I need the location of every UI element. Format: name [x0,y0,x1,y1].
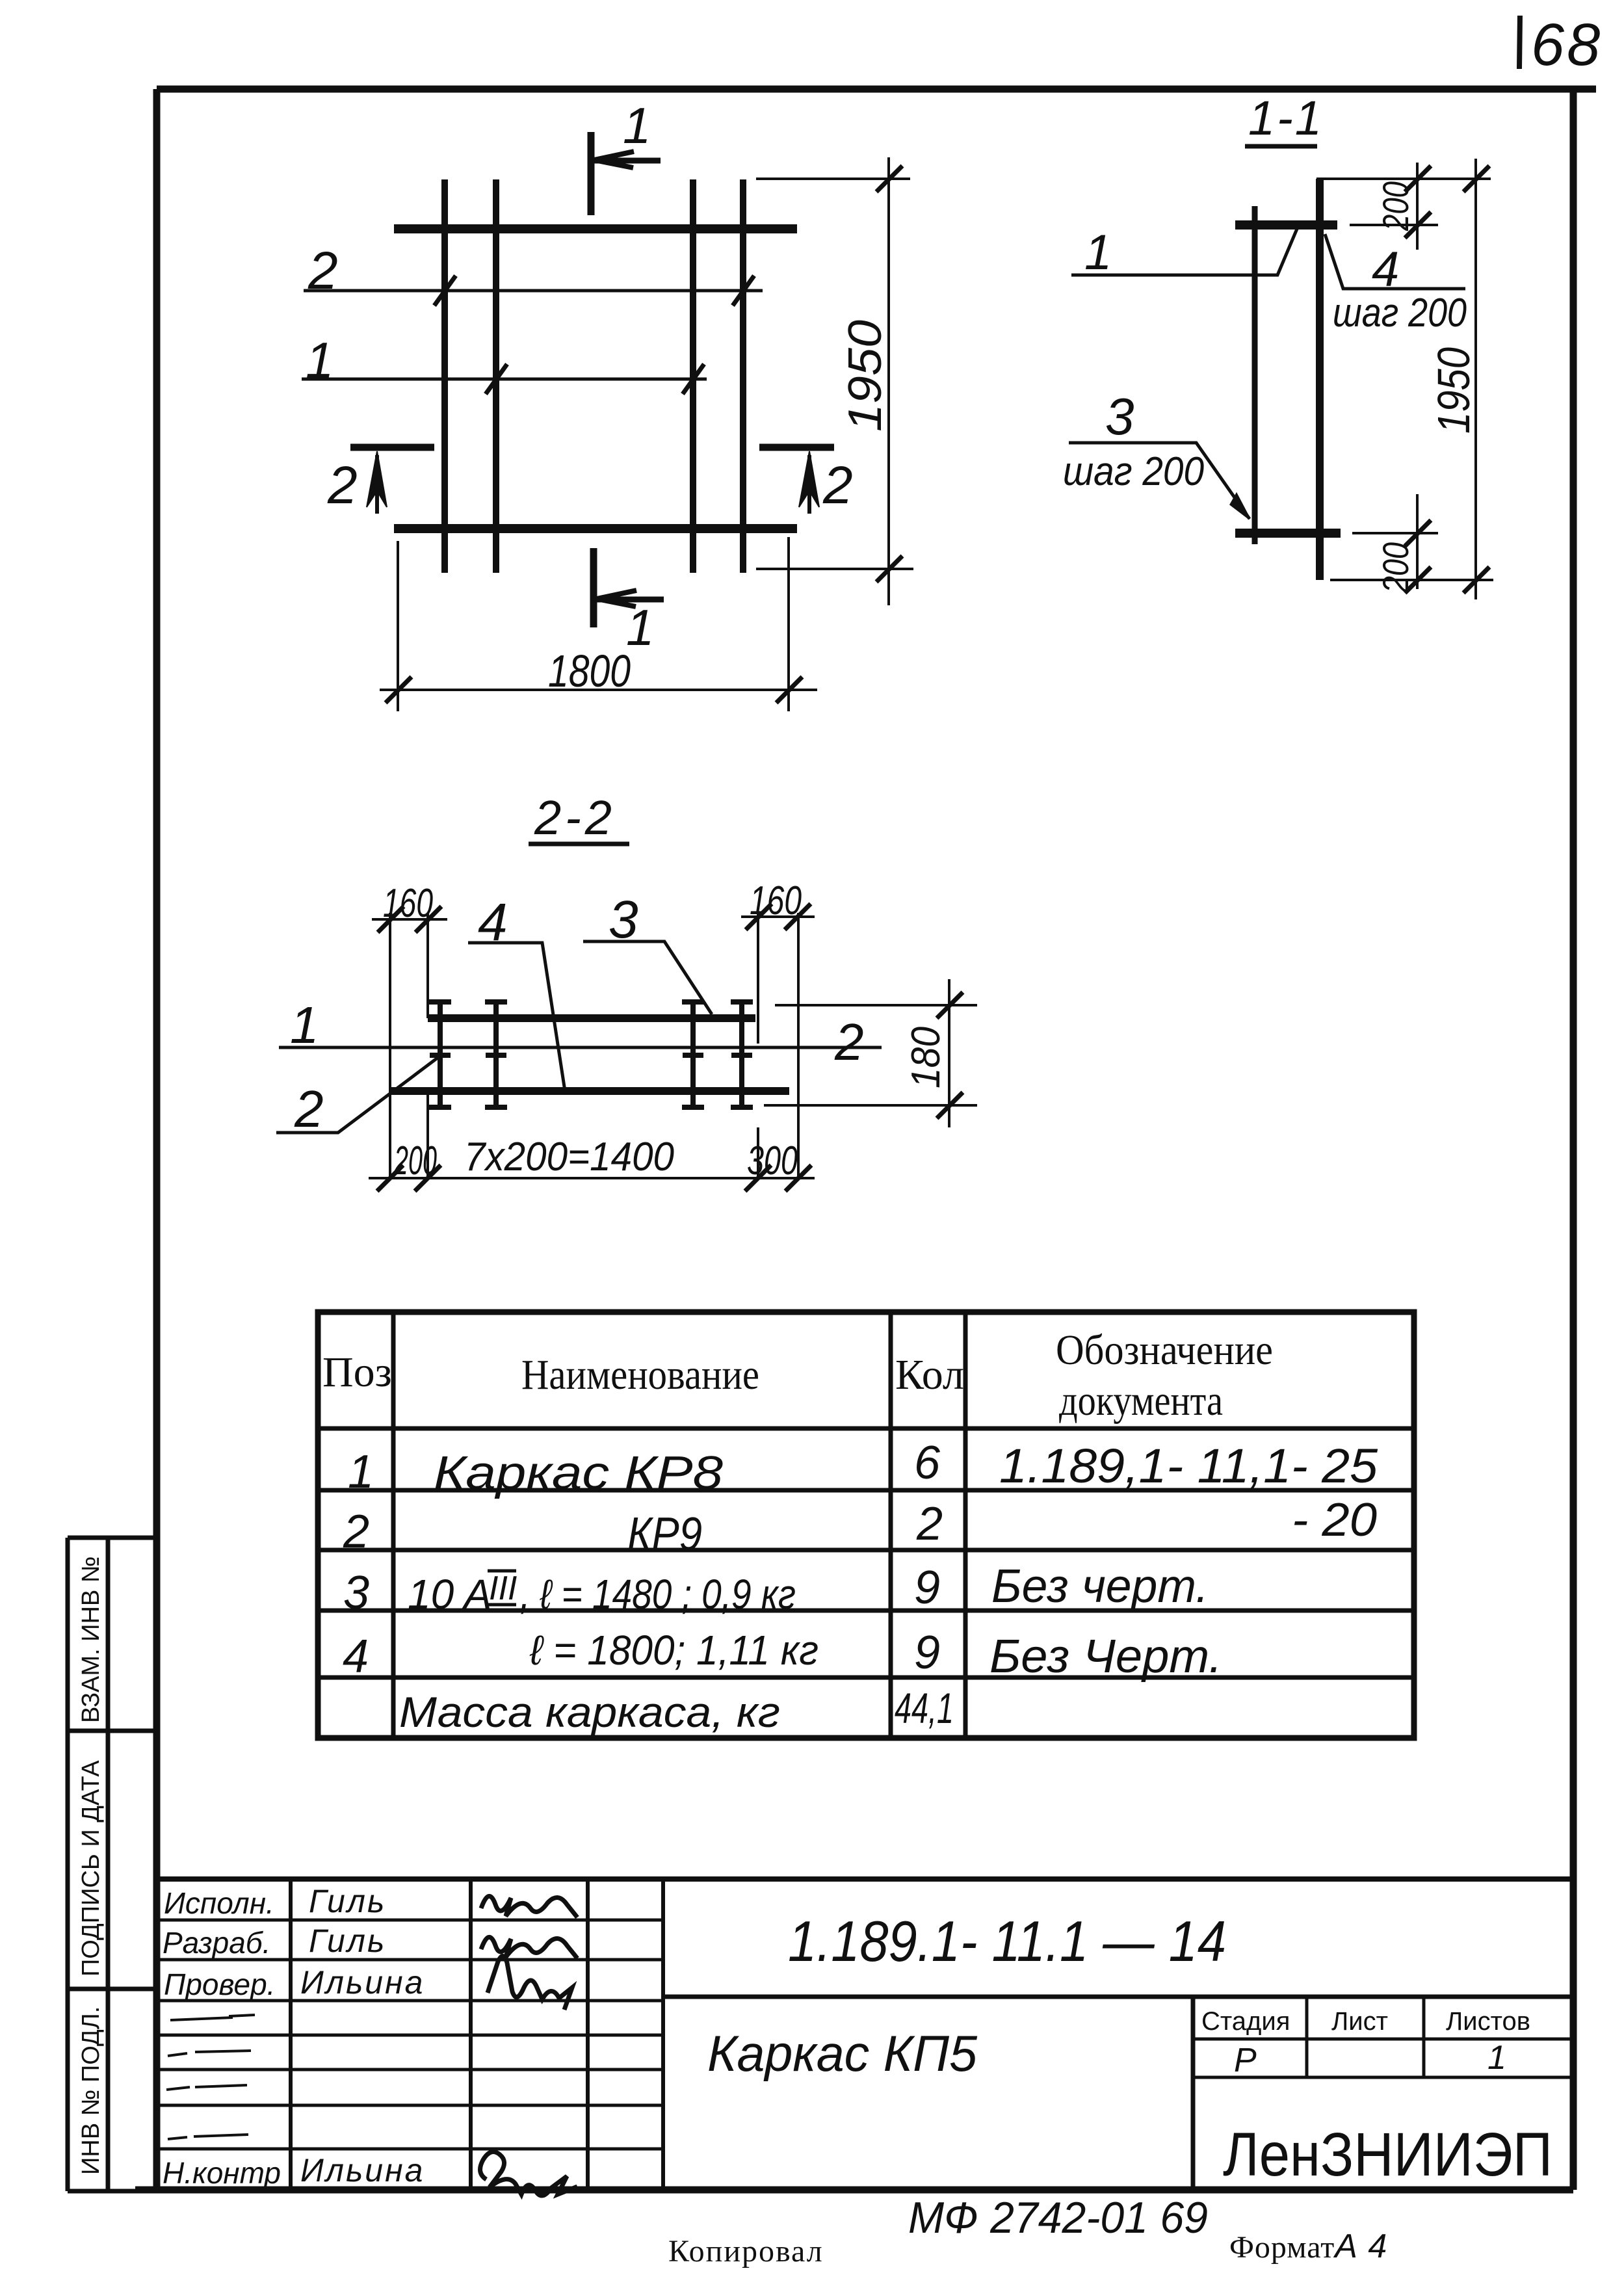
svg-text:Лист: Лист [1331,2007,1388,2036]
svg-text:ФорматА 4: ФорматА 4 [1229,2228,1387,2265]
svg-text:7x200=1400: 7x200=1400 [464,1135,674,1179]
svg-text:Поз: Поз [322,1348,392,1396]
svg-text:1: 1 [306,332,334,389]
svg-text:, ℓ = 1480 ; 0,9 кг: , ℓ = 1480 ; 0,9 кг [520,1571,796,1618]
svg-text:9: 9 [914,1562,940,1614]
dim line 200 top [1416,163,1419,250]
dashes in empty rows [166,2015,255,2139]
vertical rebar V3 [690,179,696,573]
svg-text:1: 1 [290,996,319,1054]
vertical rebar V2 [493,179,499,573]
svg-text:Без Черт.: Без Черт. [989,1631,1222,1683]
signatures [480,1896,577,2196]
svg-text:Стадия: Стадия [1201,2007,1290,2036]
transverse bar T1 [429,1000,451,1109]
section mark 1 top [591,132,661,215]
svg-text:10 A: 10 A [408,1571,491,1618]
svg-text:200: 200 [393,1138,437,1183]
section mark 2 right [759,447,834,514]
section mark 2 left [350,447,434,514]
bottom dimension chain [369,1165,815,1191]
svg-text:1: 1 [623,97,651,154]
svg-text:ИНВ № ПОДЛ.: ИНВ № ПОДЛ. [77,2006,105,2175]
dim 160 right [741,904,815,1178]
svg-text:Наименование: Наименование [521,1351,759,1399]
svg-text:Ильина: Ильина [300,1964,425,2001]
svg-text:2: 2 [294,1080,324,1138]
vertical rebar V1 [441,179,448,573]
svg-text:Н.контр: Н.контр [163,2156,281,2190]
svg-text:Разраб.: Разраб. [163,1926,270,1960]
dimension 1800 [380,537,817,711]
svg-text:3: 3 [343,1567,369,1619]
svg-text:1.189.1- 11.1 — 14: 1.189.1- 11.1 — 14 [788,1909,1226,1973]
svg-text:160: 160 [750,878,802,923]
transverse bar T3 [682,1000,704,1109]
svg-text:Р: Р [1234,2042,1257,2079]
svg-text:ВЗАМ. ИНВ №: ВЗАМ. ИНВ № [77,1556,105,1723]
top transverse bar end view [1235,220,1337,230]
svg-text:Кол: Кол [895,1351,964,1399]
svg-text:1.189,1- 11,1- 25: 1.189,1- 11,1- 25 [999,1439,1378,1493]
svg-text:44,1: 44,1 [895,1684,954,1732]
svg-text:300: 300 [747,1138,798,1183]
svg-text:2: 2 [822,456,853,515]
svg-text:2: 2 [916,1498,943,1550]
svg-text:КР9: КР9 [627,1508,702,1560]
svg-text:ℓ = 1800; 1,11 кг: ℓ = 1800; 1,11 кг [529,1627,819,1674]
sheet index tick top right [1519,16,1520,69]
svg-text:2-2: 2-2 [534,791,616,845]
svg-text:Без черт.: Без черт. [991,1560,1209,1612]
dimension 1950 plan [756,157,913,605]
axis line 1-2 [279,1046,882,1049]
svg-text:1950: 1950 [1428,347,1479,434]
svg-text:4: 4 [343,1631,369,1683]
table grid [318,1312,1414,1738]
svg-text:Листов: Листов [1446,2007,1530,2036]
svg-text:Гиль: Гиль [309,1883,386,1919]
svg-text:- 20: - 20 [1292,1494,1377,1546]
dim 160 left [372,906,447,1178]
svg-text:200: 200 [1375,542,1416,594]
svg-text:Провер.: Провер. [164,1967,275,2001]
svg-text:1-1: 1-1 [1248,91,1324,145]
svg-text:1: 1 [1084,225,1112,280]
svg-text:Обозначение: Обозначение [1056,1326,1273,1374]
transverse bar T2 [485,1000,507,1109]
frame bar right (pos 4) [1316,179,1324,580]
frame bar left (pos 3) [1252,206,1258,544]
svg-text:Копировал: Копировал [668,2234,824,2268]
bar line 2 [304,289,763,293]
svg-text:200: 200 [1375,181,1416,231]
dim 180 right [764,979,977,1127]
section mark 1 bottom [594,548,664,627]
svg-text:1950: 1950 [839,320,891,432]
bottom transverse bar [394,524,797,533]
title block outline and rows [157,1876,1573,1882]
bottom longitudinal bar [391,1087,789,1095]
top longitudinal bar [428,1014,755,1022]
svg-text:МФ 2742-01 69: МФ 2742-01 69 [908,2193,1208,2242]
svg-text:Исполн.: Исполн. [164,1886,274,1920]
svg-text:2: 2 [327,456,358,515]
svg-text:ПОДПИСЬ И ДАТА: ПОДПИСЬ И ДАТА [77,1760,105,1977]
svg-text:2: 2 [308,241,338,300]
svg-text:шаг 200: шаг 200 [1063,449,1204,494]
section 1-1 dimension extension lines [1316,159,1493,599]
svg-text:3: 3 [1105,388,1134,445]
svg-text:Ильина: Ильина [300,2152,425,2189]
svg-text:2: 2 [343,1506,369,1558]
bar line 1 [302,378,707,381]
svg-text:Масса каркаса, кг: Масса каркаса, кг [399,1688,780,1736]
svg-text:1: 1 [348,1446,374,1498]
svg-text:документа: документа [1059,1377,1223,1425]
svg-text:шаг 200: шаг 200 [1333,291,1467,335]
svg-text:1800: 1800 [548,646,631,696]
svg-text:Каркас КР8: Каркас КР8 [434,1447,723,1499]
bottom transverse bar end view [1235,529,1341,538]
svg-text:Каркас КП5: Каркас КП5 [707,2025,978,2082]
svg-text:180: 180 [904,1027,949,1088]
svg-text:ЛенЗНИИЭП: ЛенЗНИИЭП [1223,2120,1552,2189]
svg-text:160: 160 [383,881,433,926]
svg-text:III: III [489,1570,517,1607]
svg-text:9: 9 [914,1627,940,1679]
vertical rebar V4 [740,179,746,573]
transverse bar T4 [731,1000,753,1109]
top transverse bar [394,224,797,233]
dim line 200 bottom [1416,494,1419,589]
left margin strip [68,1538,157,2191]
svg-text:1: 1 [1487,2039,1506,2077]
svg-text:68: 68 [1531,12,1603,78]
svg-text:Гиль: Гиль [309,1923,386,1959]
dim line 1950 [1474,159,1477,599]
svg-text:6: 6 [914,1437,941,1489]
svg-text:2: 2 [834,1013,864,1071]
